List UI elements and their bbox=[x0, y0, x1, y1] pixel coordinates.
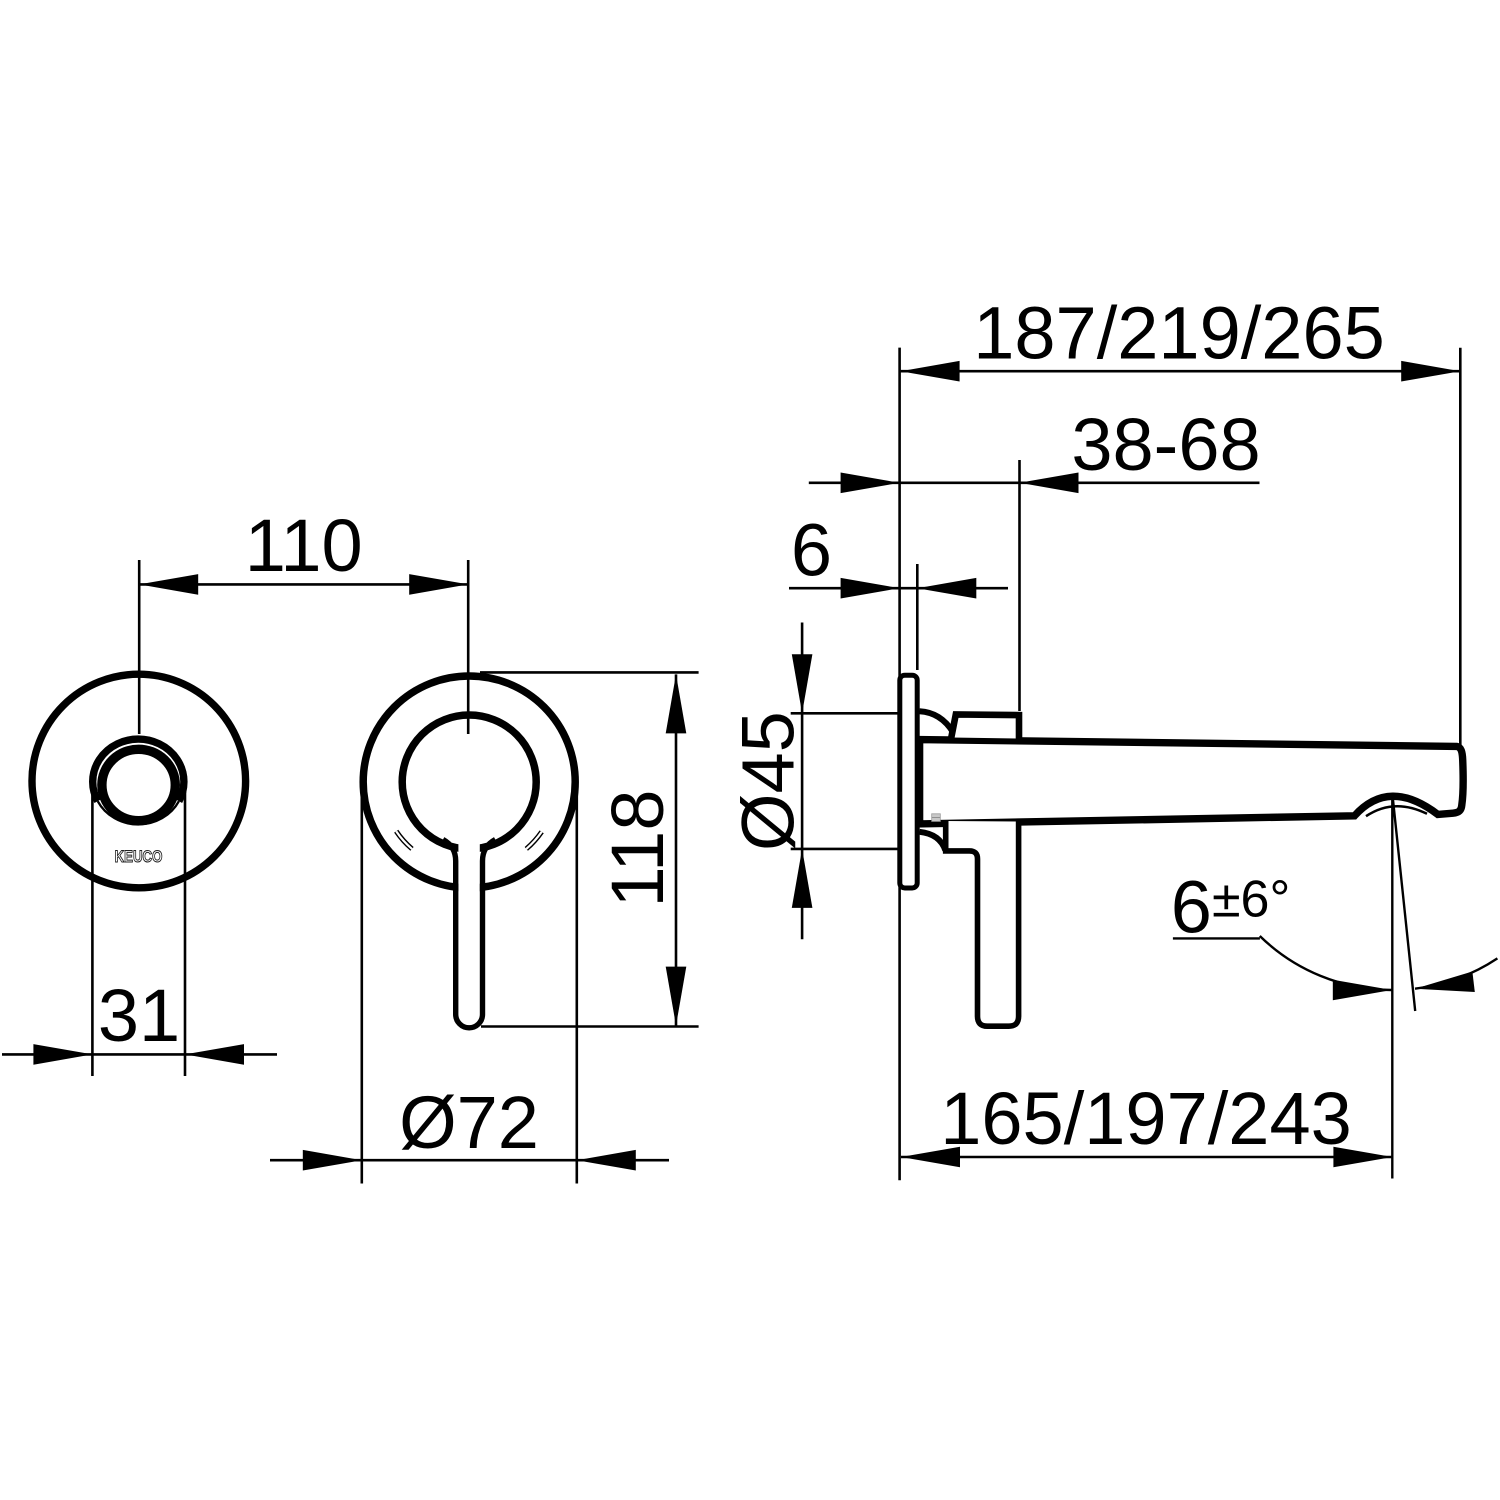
side view: wall escutcheon plate bbox=[900, 675, 917, 888]
svg-text:118: 118 bbox=[596, 790, 679, 908]
svg-text:±6°: ±6° bbox=[1212, 871, 1290, 929]
handle tick mark left bbox=[396, 831, 412, 849]
dimension 187/219/265 bbox=[901, 292, 1461, 749]
KEUCO logo bbox=[115, 848, 163, 867]
side view: escutcheon front face extension line bbox=[916, 564, 919, 670]
dimension Ø45 bbox=[727, 623, 899, 940]
angle dimension 6±6°: leader and arcs bbox=[1173, 936, 1498, 1000]
svg-text:165/197/243: 165/197/243 bbox=[940, 1077, 1352, 1160]
svg-text:6: 6 bbox=[791, 508, 832, 591]
dimension 31 bbox=[2, 792, 277, 1077]
angle dimension 6±6°: tilted spout axis line bbox=[1393, 798, 1415, 1011]
spout stub front view: thin bottom arc bbox=[98, 801, 179, 824]
side view: cartridge adapter trapezoid bbox=[951, 714, 1019, 738]
side view: wall face extension line bbox=[898, 348, 901, 1181]
svg-text:KEUCO: KEUCO bbox=[115, 848, 163, 867]
side view: dome curve above spout bbox=[920, 711, 954, 732]
side view: aerator inner thin arc bbox=[1366, 806, 1427, 816]
svg-text:Ø72: Ø72 bbox=[399, 1081, 539, 1164]
spout stub front view: inner ring bbox=[102, 749, 175, 820]
dimension 38-68 bbox=[809, 403, 1261, 711]
handle lever ring front view bbox=[402, 715, 536, 1015]
dimension Ø72 bbox=[270, 782, 669, 1184]
dimension 165/197/243 bbox=[901, 1077, 1392, 1168]
dimension 118 bbox=[480, 672, 699, 1026]
angle dimension 6±6°: vertical reference line bbox=[1391, 794, 1393, 1179]
spout stub front view: outer ring top arc bbox=[93, 739, 184, 801]
handle tick mark right bbox=[526, 832, 541, 849]
svg-text:110: 110 bbox=[245, 504, 363, 587]
handle lever stem bbox=[443, 840, 495, 1028]
side view: dome curve below spout bbox=[920, 832, 946, 851]
svg-text:6: 6 bbox=[1171, 866, 1212, 949]
angle dimension 6±6°: text bbox=[1171, 866, 1290, 949]
side view: lever handle bbox=[946, 821, 1019, 1026]
svg-text:31: 31 bbox=[98, 974, 180, 1057]
svg-text:38-68: 38-68 bbox=[1071, 403, 1260, 486]
side view: spout body bbox=[920, 740, 1463, 824]
side view: grub screw bbox=[932, 814, 941, 822]
svg-text:187/219/265: 187/219/265 bbox=[973, 292, 1385, 375]
spout escutcheon front view: outer circle bbox=[32, 674, 246, 888]
svg-text:Ø45: Ø45 bbox=[727, 711, 810, 851]
dimension 110 bbox=[139, 504, 468, 734]
dimension 6 bbox=[789, 508, 1008, 598]
handle escutcheon front view: outer circle bbox=[363, 676, 575, 888]
